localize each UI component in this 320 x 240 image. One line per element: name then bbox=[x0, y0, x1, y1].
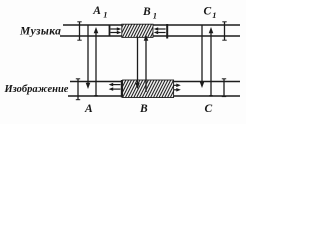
insert section B left arrow upper bbox=[109, 83, 121, 87]
svg-text:A: A bbox=[92, 5, 101, 17]
label A1 bbox=[92, 5, 107, 20]
image sync tick left bbox=[76, 79, 80, 101]
sync arrow A up bbox=[94, 27, 99, 96]
svg-text:1: 1 bbox=[103, 10, 107, 20]
label B1 bbox=[142, 6, 157, 21]
music track top edge bbox=[63, 24, 240, 26]
insert section B right arrow lower bbox=[174, 88, 181, 92]
image sync tick right bbox=[222, 79, 226, 98]
sync arrow C down bbox=[200, 26, 205, 89]
svg-text:C: C bbox=[205, 103, 213, 115]
cut section B1 hatched block bbox=[122, 24, 153, 37]
image track bottom edge bbox=[68, 95, 240, 97]
cut section B1 right bar bbox=[166, 24, 168, 39]
insert section B right arrow upper bbox=[174, 84, 181, 88]
label C1 bbox=[204, 6, 217, 21]
svg-text:Изображение: Изображение bbox=[4, 84, 69, 95]
svg-text:1: 1 bbox=[153, 11, 157, 21]
svg-text:Музыка: Музыка bbox=[19, 26, 61, 38]
svg-text:B: B bbox=[142, 6, 151, 18]
insert section B hatched block bbox=[123, 80, 174, 98]
cut section B1 right arrow upper bbox=[154, 27, 166, 31]
cut section B1 left arrow upper bbox=[111, 27, 122, 31]
svg-text:A: A bbox=[84, 103, 93, 115]
music track bottom edge bbox=[60, 35, 240, 37]
svg-text:B: B bbox=[139, 103, 148, 115]
music sync tick C1 bbox=[222, 22, 226, 41]
cut section B1 left arrow lower bbox=[111, 31, 122, 35]
sync arrow C up bbox=[209, 27, 214, 96]
music sync tick A1 bbox=[77, 22, 81, 41]
cut section B1 right arrow lower bbox=[154, 31, 166, 35]
cut section B1 left bar bbox=[109, 26, 111, 37]
sync arrow A down bbox=[86, 26, 91, 90]
sync arrow B up bbox=[144, 35, 149, 93]
sync arrow B down bbox=[135, 37, 140, 90]
insert section B left bar bbox=[121, 80, 123, 98]
svg-text:1: 1 bbox=[212, 10, 216, 20]
svg-text:C: C bbox=[204, 6, 212, 18]
image track top edge bbox=[70, 81, 240, 83]
insert section B left arrow lower bbox=[109, 87, 121, 91]
